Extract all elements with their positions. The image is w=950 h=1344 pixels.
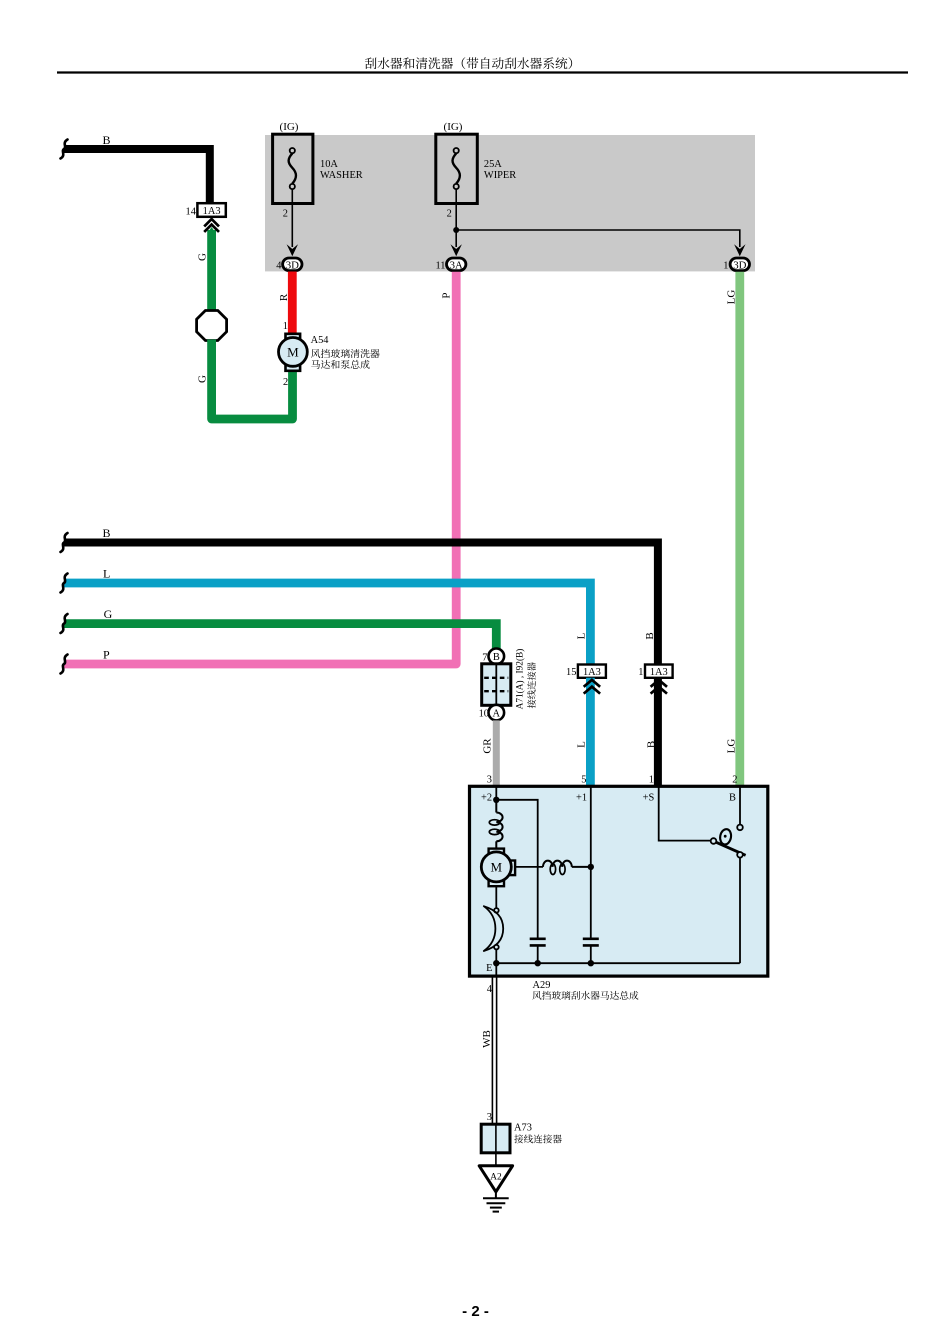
svg-text:10A: 10A xyxy=(320,159,338,170)
svg-text:B: B xyxy=(103,133,111,147)
switch contact c xyxy=(737,825,743,831)
svg-text:25A: 25A xyxy=(484,159,502,170)
wire +2 branch to C1 xyxy=(496,800,537,938)
chevron shield xyxy=(208,227,216,233)
ground symbol xyxy=(483,1192,509,1212)
svg-text:+S: +S xyxy=(643,793,655,804)
break symbol xyxy=(61,140,68,159)
wire B stub xyxy=(739,786,741,824)
svg-text:A73: A73 xyxy=(514,1123,532,1134)
svg-text:A71(A) , I92(B): A71(A) , I92(B) xyxy=(515,649,526,710)
wiper motor M xyxy=(481,849,515,887)
svg-text:B: B xyxy=(644,632,656,639)
svg-text:WB: WB xyxy=(481,1030,493,1048)
svg-text:3D: 3D xyxy=(733,259,746,271)
wire +S xyxy=(659,786,711,840)
wire G washer ground side xyxy=(207,230,216,312)
svg-text:1: 1 xyxy=(283,321,288,332)
node +2 xyxy=(493,797,499,803)
header title xyxy=(365,57,572,69)
svg-text:3D: 3D xyxy=(286,259,299,271)
svg-text:L: L xyxy=(576,632,588,639)
junction connector A71 body xyxy=(482,664,511,706)
wire R washer motor feed xyxy=(288,272,297,335)
ground point A2 xyxy=(479,1166,512,1192)
choke coil L1 (vertical) xyxy=(489,800,502,849)
svg-text:2: 2 xyxy=(283,209,288,220)
svg-text:1A3: 1A3 xyxy=(650,667,668,678)
cam with pivot xyxy=(719,828,732,845)
svg-text:B: B xyxy=(493,652,500,663)
fuse F2 element xyxy=(453,148,460,189)
fuse F1 WASHER box xyxy=(273,134,313,203)
wire +2 stub xyxy=(495,786,497,800)
header rule xyxy=(57,71,908,73)
break symbol xyxy=(61,574,68,593)
svg-text:3: 3 xyxy=(487,775,492,786)
svg-text:2: 2 xyxy=(447,209,452,220)
park switch cam blade xyxy=(484,906,503,951)
fuse F1 element xyxy=(289,148,296,189)
wire to ground xyxy=(495,1153,497,1166)
svg-text:1A3: 1A3 xyxy=(203,206,221,217)
svg-text:2: 2 xyxy=(732,775,737,786)
svg-text:A2: A2 xyxy=(490,1173,502,1183)
capacitor C1 xyxy=(530,939,546,946)
svg-text:B: B xyxy=(646,741,658,748)
octagon (sheathing) xyxy=(197,311,227,341)
svg-text:- 2 -: - 2 - xyxy=(462,1303,489,1320)
wire B lower xyxy=(654,678,662,787)
svg-text:R: R xyxy=(278,293,290,301)
svg-text:B: B xyxy=(103,526,111,540)
svg-text:L: L xyxy=(576,741,588,748)
svg-text:A: A xyxy=(493,709,501,720)
wiper motor A29 body xyxy=(470,786,768,976)
ground rail E xyxy=(496,962,740,964)
svg-text:A54: A54 xyxy=(311,335,330,346)
chevron shield xyxy=(651,680,667,694)
node +1/choke xyxy=(588,864,594,870)
svg-text:3A: 3A xyxy=(450,259,463,271)
svg-text:1: 1 xyxy=(638,667,643,678)
wire junction to right 3D xyxy=(456,230,740,247)
svg-text:1A3: 1A3 xyxy=(583,667,601,678)
fuse F2 WIPER box xyxy=(436,134,478,203)
wire GR xyxy=(493,720,500,786)
svg-text:G: G xyxy=(197,375,209,383)
choke coil L2 (horizontal) xyxy=(543,861,591,875)
break symbol xyxy=(61,533,68,552)
svg-text:B: B xyxy=(729,793,736,804)
wire +1 xyxy=(590,786,592,937)
svg-text:+2: +2 xyxy=(481,793,492,804)
wire fuse F2 down xyxy=(455,189,457,247)
svg-text:7: 7 xyxy=(482,652,487,663)
wire fuse F1 to connector 3D xyxy=(291,189,293,247)
switch contact a xyxy=(711,838,717,844)
switch blade xyxy=(716,842,745,855)
wire WB (double line) xyxy=(492,976,496,1124)
svg-text:P: P xyxy=(441,292,453,298)
svg-text:E: E xyxy=(486,963,492,974)
break symbol xyxy=(61,655,68,674)
arrow into right 3D xyxy=(734,244,745,256)
chevron shield xyxy=(584,680,600,694)
svg-text:WIPER: WIPER xyxy=(484,170,516,181)
svg-text:L: L xyxy=(103,567,110,581)
svg-text:M: M xyxy=(287,345,299,360)
svg-text:11: 11 xyxy=(435,260,445,271)
svg-text:+1: +1 xyxy=(576,793,587,804)
svg-text:14: 14 xyxy=(186,206,197,217)
wire L lower xyxy=(586,678,595,787)
svg-text:1: 1 xyxy=(649,775,654,786)
arrow into 3D xyxy=(287,244,298,256)
svg-text:P: P xyxy=(103,648,110,662)
svg-text:G: G xyxy=(104,607,113,621)
wire motor to choke L2 xyxy=(515,866,543,868)
wire P wiper feed vertical+horizontal xyxy=(64,272,456,664)
svg-text:2: 2 xyxy=(283,377,288,388)
park switch contact wire xyxy=(495,886,497,908)
svg-text:15: 15 xyxy=(566,667,576,678)
svg-text:(IG): (IG) xyxy=(444,121,463,133)
svg-text:1: 1 xyxy=(723,260,728,271)
junction node xyxy=(453,227,459,233)
power source box (gray) xyxy=(265,135,755,271)
svg-text:3: 3 xyxy=(487,1112,492,1123)
junction connector A73 xyxy=(481,1124,510,1153)
svg-text:A29: A29 xyxy=(533,980,551,991)
svg-text:M: M xyxy=(491,860,503,875)
svg-text:LG: LG xyxy=(726,739,738,754)
svg-text:GR: GR xyxy=(482,738,494,754)
break symbol xyxy=(61,614,68,633)
washer motor A54 xyxy=(279,334,308,371)
wire switch to rail xyxy=(739,858,741,964)
switch contact b xyxy=(737,852,743,858)
svg-text:(IG): (IG) xyxy=(280,121,299,133)
svg-text:WASHER: WASHER xyxy=(320,170,363,181)
capacitor C2 xyxy=(583,939,599,946)
svg-text:G: G xyxy=(197,253,209,261)
svg-text:5: 5 xyxy=(581,775,586,786)
arrow into 3A xyxy=(451,244,462,256)
